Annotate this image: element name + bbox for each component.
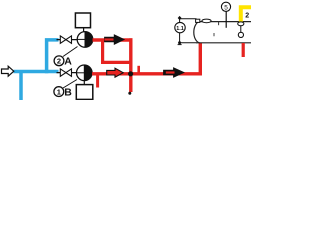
wire: black line through bottom valve row	[57, 72, 94, 74]
node: label 2A	[54, 56, 72, 68]
wire: blue riser up to top circuit	[47, 40, 59, 73]
svg-text:1.1: 1.1	[176, 26, 184, 32]
node: flow arrow 1 on bottom red pipe	[107, 68, 124, 77]
svg-text:2: 2	[57, 57, 61, 66]
instrument bubble 1.1	[175, 22, 185, 32]
node: small nozzle tick on tank top	[218, 22, 220, 26]
wire: blue supply main horizontal	[14, 70, 59, 74]
actuator box (bottom)	[76, 85, 93, 100]
wire: stub box to pump (top)	[83, 28, 85, 32]
node: junction dot at red cross	[128, 71, 133, 76]
pump P-A (top, circle with black right half)	[77, 32, 93, 48]
wire: red stub below pipe near pump	[96, 74, 99, 88]
actuator box (top)	[75, 13, 90, 28]
node: internal tick in tank	[213, 33, 215, 36]
wire: red stub below tank right	[242, 43, 245, 57]
wire: black line through top valve row	[57, 39, 94, 41]
wire: dip tube from 5 into tank	[225, 11, 227, 27]
wire: red stub above pipe at x138	[137, 66, 140, 74]
pump P-B (bottom, circle with black right half)	[77, 65, 93, 81]
node: small dot at bottom of red drop	[128, 92, 131, 95]
svg-text:A: A	[64, 56, 72, 68]
wire: top red pipe to corner	[93, 38, 133, 41]
wire: leader line to label 2A	[63, 47, 78, 57]
wire: float line inside tank	[240, 26, 242, 34]
node: yellow pipe tank fitting	[238, 22, 244, 26]
node: small diamond on 1.1 stub	[178, 16, 182, 20]
valve V-A (top shutoff bowtie)	[60, 36, 71, 43]
node: flow arrow on top red pipe	[105, 35, 125, 45]
node: flow arrow 2 on bottom red pipe	[164, 68, 185, 78]
wire: stub pump to box (bottom)	[83, 81, 85, 85]
valve V-B (bottom shutoff bowtie)	[60, 69, 71, 76]
tank T1 (horizontal cylinder, cut at right edge)	[194, 22, 251, 43]
svg-text:5: 5	[224, 4, 228, 11]
node: label 1B	[54, 86, 72, 98]
node: tick below 1.1 junction	[178, 44, 182, 46]
svg-text:1: 1	[57, 87, 61, 96]
node: tank top-left nozzle	[196, 19, 200, 22]
wire: red jog horizontal	[101, 61, 131, 64]
node: flow-in arrow (white block arrow)	[2, 66, 14, 76]
svg-text:2: 2	[245, 12, 249, 19]
wire: red drop at corner x=130.8 down to y=92	[129, 38, 132, 92]
wire: red riser up into tank bottom	[199, 43, 202, 76]
wire: leader line to label 1B	[63, 80, 77, 89]
wire: bottom red pipe long run	[92, 72, 202, 75]
wire: 1.1 top connection over tank	[180, 19, 197, 23]
wire: red branch down from top pipe	[101, 40, 104, 62]
node: float ball	[238, 32, 243, 37]
node: junction dot on 1.1 bottom line	[178, 41, 181, 44]
node: manhole lens on tank top	[202, 19, 211, 23]
instrument bubble 5	[221, 2, 230, 11]
svg-text:B: B	[64, 86, 72, 98]
wire: yellow pipe from right edge into tank top	[241, 7, 251, 21]
wire: blue tee branch down to bottom edge	[19, 70, 23, 100]
wire: 1.1 bottom connection	[180, 33, 197, 43]
